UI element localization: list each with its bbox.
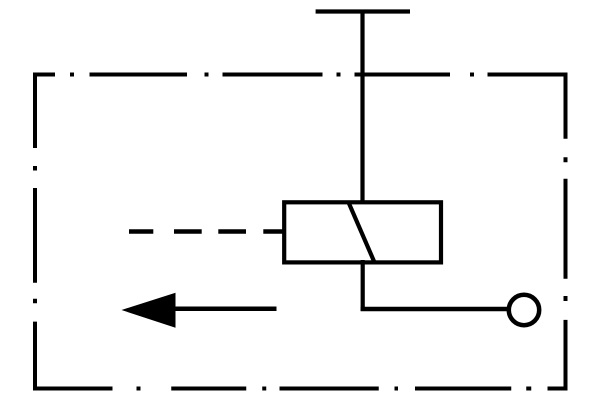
probe/electrode T-bar at top bbox=[316, 9, 410, 13]
direction arrow head (left-pointing) bbox=[122, 293, 176, 328]
wire from box bottom down bbox=[361, 260, 365, 311]
control box (rectangle) bbox=[284, 202, 441, 262]
enclosure boundary top (dash-dot line) bbox=[33, 73, 568, 77]
direction arrow tail line bbox=[174, 306, 277, 311]
enclosure boundary right (dash-dot line) bbox=[564, 73, 568, 391]
terminal circle bbox=[509, 295, 539, 325]
wire from T-bar down to control box bbox=[360, 10, 364, 205]
wire from junction right to terminal circle bbox=[361, 307, 507, 312]
dashed mechanical link line to box bbox=[129, 229, 286, 234]
enclosure boundary left (dash-dot line) bbox=[33, 73, 37, 391]
diagonal actuating stroke inside box bbox=[349, 202, 375, 262]
enclosure boundary bottom (dash-dot line) bbox=[33, 387, 568, 391]
